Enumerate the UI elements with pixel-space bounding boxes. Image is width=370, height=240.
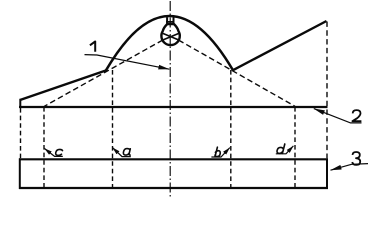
left eave vertical edge [19, 99, 21, 108]
band left edge [19, 158, 21, 189]
label d leader arrow [276, 146, 294, 154]
band top line (item 3) [19, 158, 328, 160]
label a leader arrow [113, 148, 131, 157]
label 3 [352, 152, 360, 165]
band right edge [326, 158, 328, 189]
ray right (dashed from lamp to point d on line 2) [179, 40, 295, 106]
label 1 [90, 42, 95, 52]
label 3 leader arrow [331, 164, 369, 171]
left roof line [20, 70, 107, 100]
dashed vertical at node a (x=112.5) [112, 70, 114, 188]
ray left (dashed from lamp to point c on line 2) [44, 40, 162, 106]
lamp bulb U1 [161, 17, 179, 45]
dome arc [106, 16, 233, 70]
dashed vertical at node c (x=44) [43, 107, 45, 188]
ceiling line (item 2) [19, 106, 328, 108]
right roof line [233, 21, 327, 70]
label 2 leader arrow [314, 109, 362, 123]
label c leader arrow [45, 149, 63, 157]
label b leader arrow [211, 148, 229, 157]
dashed vertical at node b (x=230.8) [230, 70, 232, 188]
label d [277, 144, 285, 153]
label c [56, 149, 63, 155]
centerline (dash-dot axis) [169, 1, 171, 197]
label 1 leader arrow [85, 55, 170, 70]
label 2 [352, 110, 361, 121]
band bottom line [19, 187, 328, 189]
label a [123, 149, 130, 156]
dashed vertical at node d (x=295) [294, 107, 296, 188]
dashed vertical left edge [20, 108, 22, 158]
label b [215, 147, 220, 156]
dashed vertical from roof peak [326, 22, 328, 159]
